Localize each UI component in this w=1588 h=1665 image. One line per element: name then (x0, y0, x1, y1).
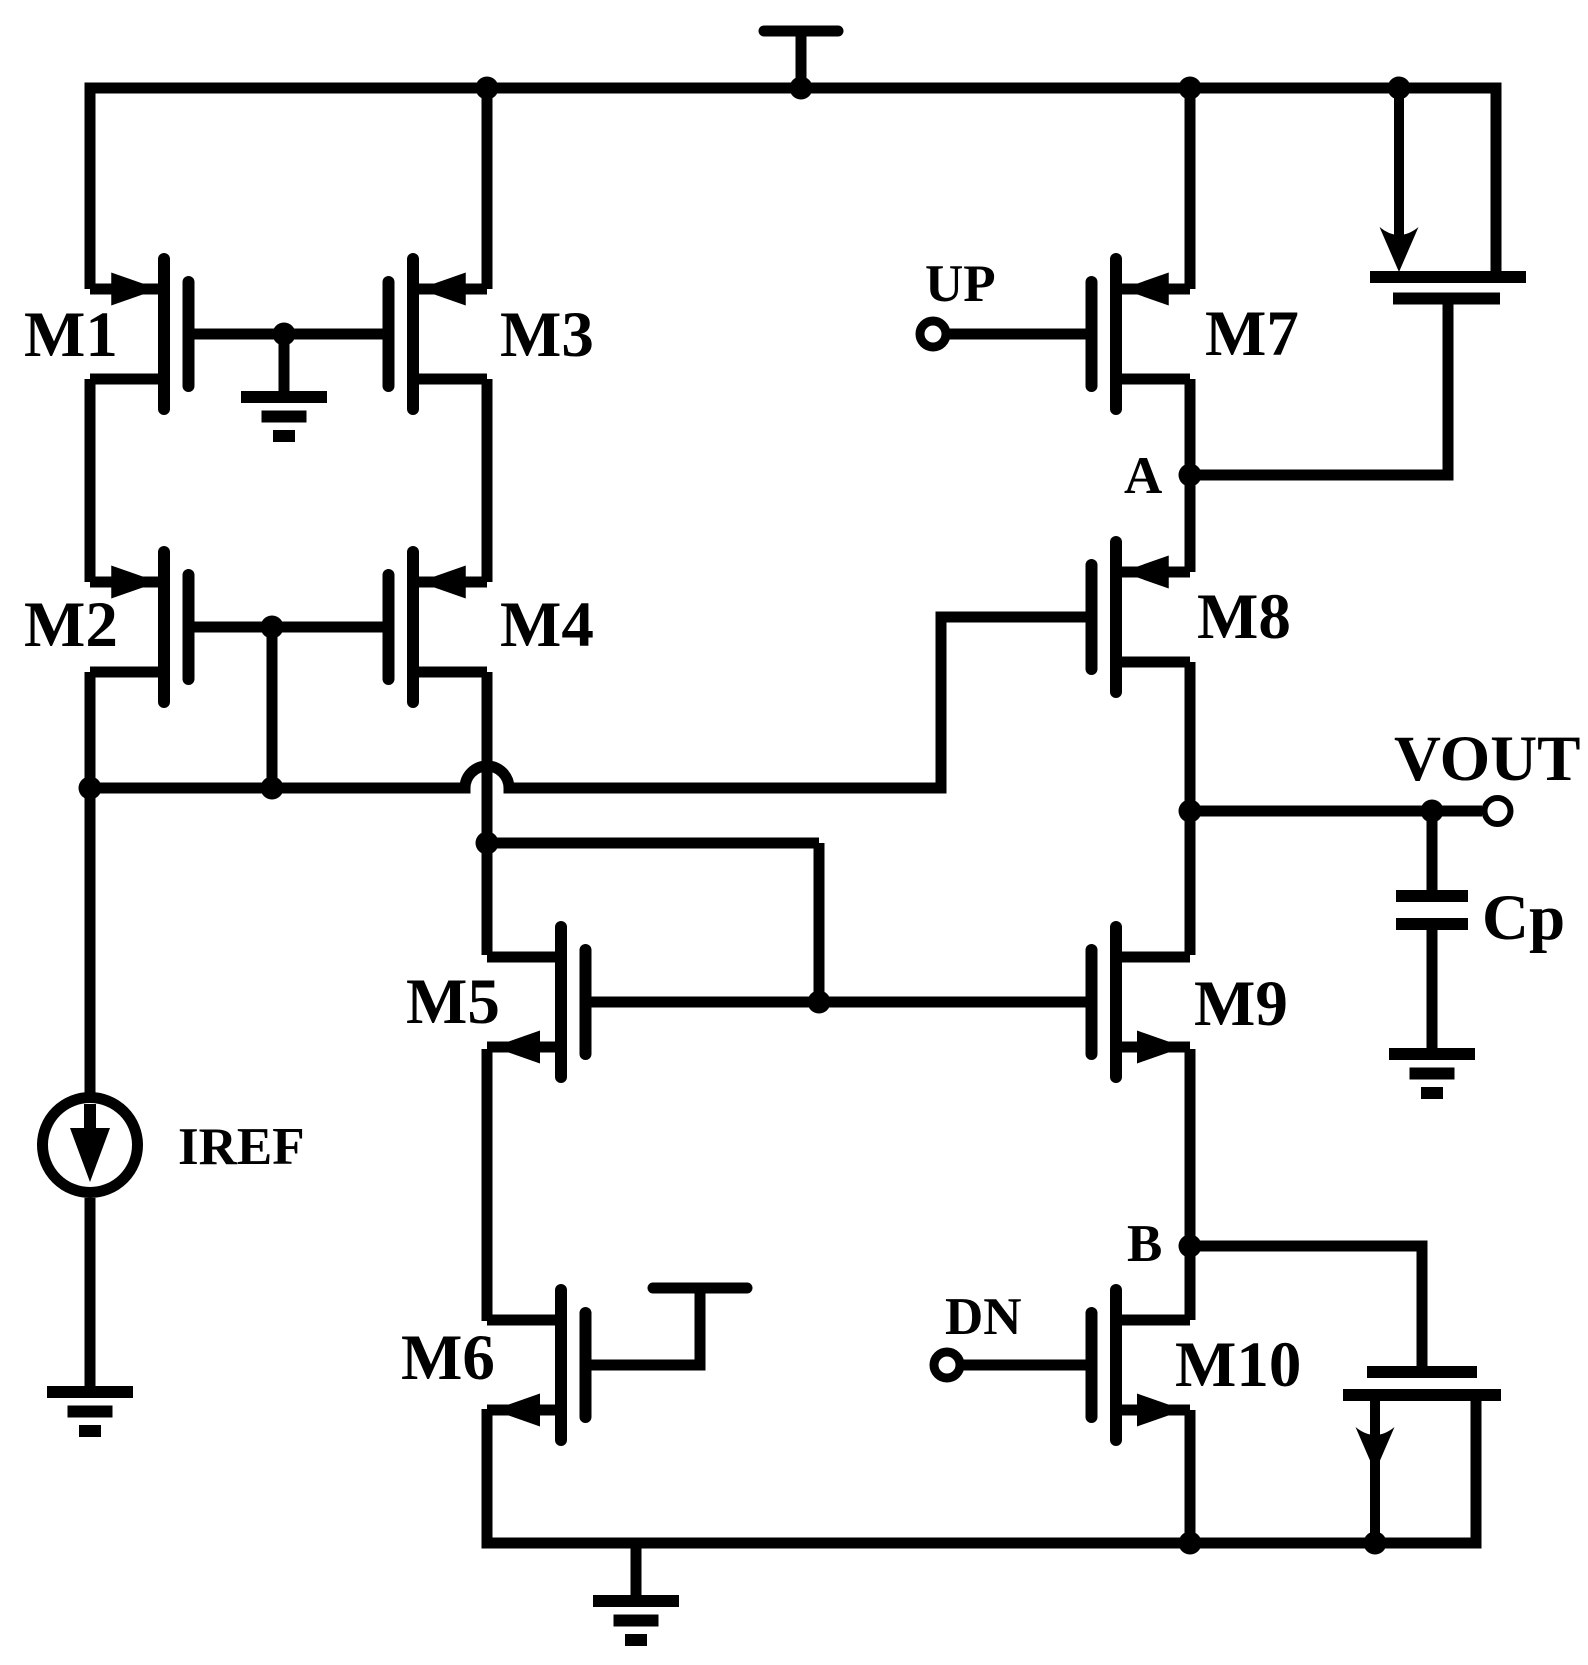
svg-text:M8: M8 (1197, 581, 1291, 653)
svg-text:M1: M1 (24, 299, 118, 371)
svg-text:M9: M9 (1194, 968, 1288, 1040)
svg-text:Cp: Cp (1482, 882, 1565, 954)
svg-text:M7: M7 (1205, 298, 1299, 370)
svg-text:M5: M5 (406, 966, 500, 1038)
svg-text:A: A (1124, 447, 1162, 505)
svg-text:B: B (1127, 1215, 1162, 1273)
svg-text:M4: M4 (500, 589, 594, 661)
svg-text:M3: M3 (500, 299, 594, 371)
svg-text:DN: DN (945, 1288, 1022, 1346)
svg-text:IREF: IREF (178, 1118, 305, 1176)
svg-text:M10: M10 (1175, 1329, 1301, 1401)
svg-text:VOUT: VOUT (1394, 723, 1581, 795)
svg-text:M6: M6 (401, 1322, 495, 1394)
svg-text:UP: UP (925, 255, 996, 313)
svg-text:M2: M2 (24, 589, 118, 661)
